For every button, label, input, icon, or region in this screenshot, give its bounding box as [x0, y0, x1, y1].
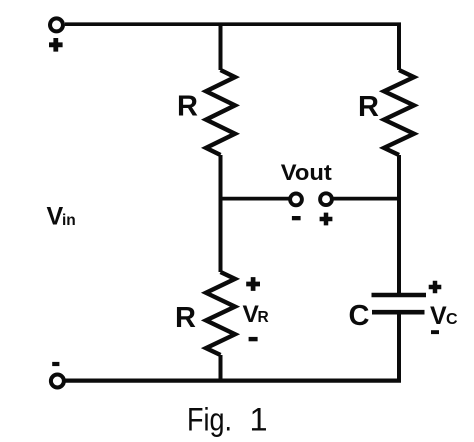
- wire right-branch bottom (C to bottom rail): [397, 312, 401, 381]
- wire Vout right segment: [333, 197, 400, 201]
- label - (VC minus polarity): [431, 330, 439, 334]
- resistor R1 (upper middle): [206, 70, 235, 155]
- svg-text:R: R: [258, 309, 269, 326]
- label - (VR minus polarity): [249, 337, 258, 341]
- terminal T2 (bottom-left input -): [51, 375, 64, 388]
- svg-text:R: R: [358, 91, 379, 123]
- terminal Vout+ (right output circle): [320, 193, 332, 205]
- svg-text:1: 1: [250, 401, 268, 437]
- resistor R2 (upper right): [384, 70, 414, 155]
- terminal Vout- (left output circle): [290, 194, 302, 206]
- terminal T1 (top-left input +): [50, 18, 63, 31]
- capacitor C1 bottom plate: [372, 310, 425, 315]
- wire right-branch mid (R2 to node Vout+ and down to C): [397, 155, 401, 295]
- wire middle-branch top: [219, 23, 223, 70]
- label + (VR plus polarity): [246, 277, 260, 291]
- svg-text:in: in: [62, 212, 76, 229]
- wire middle-branch bottom (R3 to bottom rail): [219, 355, 223, 381]
- wire middle-branch mid (R1 to node Vout- and down to R3): [219, 155, 223, 272]
- wire Vout left segment: [221, 197, 290, 201]
- label - (input negative): [52, 362, 59, 366]
- label - (Vout minus polarity): [292, 216, 301, 220]
- svg-text:Vout: Vout: [281, 160, 333, 185]
- wire right-branch top: [397, 23, 401, 70]
- wire top (T1 to node B): [65, 22, 401, 26]
- svg-text:V: V: [430, 302, 447, 330]
- svg-text:C: C: [349, 300, 370, 332]
- label + (input positive): [49, 38, 63, 52]
- label + (Vout plus polarity): [320, 213, 333, 226]
- svg-text:V: V: [47, 202, 64, 230]
- svg-text:Fig.: Fig.: [187, 401, 232, 437]
- svg-text:R: R: [177, 90, 198, 122]
- resistor R3 (lower middle): [206, 272, 235, 355]
- wire bottom rail: [66, 379, 402, 383]
- label + (VC plus polarity): [429, 281, 442, 294]
- capacitor C1 top plate: [372, 293, 427, 298]
- svg-text:R: R: [175, 302, 196, 334]
- svg-text:C: C: [446, 311, 458, 328]
